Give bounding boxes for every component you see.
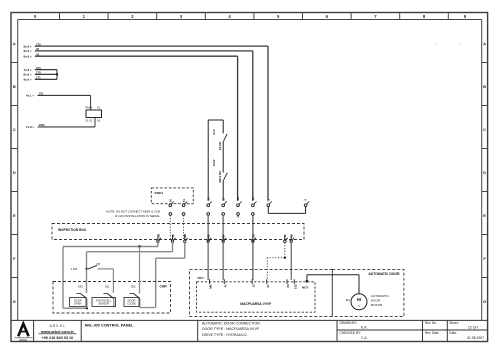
svg-text:AUTOMATIC DOOR: AUTOMATIC DOOR [368, 272, 400, 276]
svg-text:8x.9 >: 8x.9 > [24, 49, 32, 53]
svg-text:532: 532 [131, 285, 136, 289]
svg-text:MOTOR: MOTOR [371, 303, 383, 307]
svg-text:51: 51 [182, 199, 186, 203]
svg-text:NOTE: DO NOT CONNECT KBK4 & CC: NOTE: DO NOT CONNECT KBK4 & CCB [106, 210, 160, 214]
svg-text:SENSOR: SENSOR [98, 301, 109, 305]
svg-text:D: D [13, 170, 16, 175]
svg-text:31.02: 31.02 [86, 119, 93, 123]
svg-text:A1: A1 [97, 106, 101, 110]
svg-text:INSPECTION BOX: INSPECTION BOX [58, 228, 87, 232]
svg-text:8x.9 >: 8x.9 > [24, 73, 32, 77]
svg-text:DOOR TYPE : MACPUARSA VVVF: DOOR TYPE : MACPUARSA VVVF [202, 327, 260, 331]
svg-text:C: C [13, 127, 16, 132]
svg-text:ARL-300 CONTROL PANEL: ARL-300 CONTROL PANEL [85, 323, 134, 327]
svg-text:31.08.2007: 31.08.2007 [467, 336, 484, 340]
svg-text:DRAWN BY:: DRAWN BY: [340, 321, 358, 325]
svg-text:4x.1 >: 4x.1 > [26, 94, 34, 98]
svg-text:M1: M1 [346, 298, 350, 302]
svg-text:E: E [13, 213, 16, 218]
svg-text:+90 216 540 03 10: +90 216 540 03 10 [42, 336, 74, 340]
svg-text:MK: MK [209, 284, 213, 288]
svg-text:Sheet:: Sheet: [449, 321, 458, 325]
svg-text:OPEN: OPEN [74, 301, 81, 305]
svg-text:58: 58 [236, 197, 240, 201]
svg-text:7x.9 >: 7x.9 > [24, 68, 32, 72]
svg-text:B: B [483, 84, 486, 89]
svg-text:G: G [483, 299, 486, 304]
svg-text:NP: NP [97, 262, 101, 266]
svg-text:100V: 100V [212, 159, 216, 166]
svg-text:Date:: Date: [449, 331, 457, 335]
svg-text:8x.9 >: 8x.9 > [24, 44, 32, 48]
svg-text:A R K E L: A R K E L [50, 324, 66, 328]
svg-text:B: B [13, 84, 16, 89]
svg-text:ARKEL: ARKEL [19, 338, 28, 342]
svg-text:56: 56 [206, 197, 210, 201]
svg-text:A2: A2 [97, 119, 101, 123]
svg-text:AUTOMATIC DOOR CONNECTION: AUTOMATIC DOOR CONNECTION [202, 322, 260, 326]
svg-text:K.A.: K.A. [361, 326, 367, 330]
svg-text:www.arkel.com.tr: www.arkel.com.tr [40, 329, 74, 334]
svg-text:50: 50 [169, 199, 173, 203]
svg-text:MOT: MOT [302, 285, 309, 289]
svg-text:MACPUARSA VVVF: MACPUARSA VVVF [240, 302, 271, 306]
svg-text:RM-2: RM-2 [86, 106, 93, 110]
svg-text:41: 41 [224, 284, 228, 288]
svg-text:CAR: CAR [160, 285, 168, 289]
svg-text:D: D [483, 170, 486, 175]
svg-text:K2 NO: K2 NO [218, 141, 222, 150]
svg-text:E: E [483, 213, 486, 218]
svg-text:57: 57 [221, 197, 225, 201]
svg-text:IF CAN INSTALLATION IS SERIAL: IF CAN INSTALLATION IS SERIAL [115, 214, 160, 218]
svg-text:CLOSE: CLOSE [127, 301, 136, 305]
svg-text:A: A [483, 41, 486, 46]
svg-text:8x.9 >: 8x.9 > [24, 78, 32, 82]
svg-text:3S: 3S [286, 284, 290, 288]
svg-text:DOOR: DOOR [371, 299, 381, 303]
svg-text:4C: 4C [266, 284, 270, 288]
svg-text:7x.9 >: 7x.9 > [26, 125, 34, 129]
svg-text:102: 102 [294, 284, 298, 289]
svg-text:~: ~ [358, 304, 361, 310]
svg-text:12: 12 [251, 284, 255, 288]
svg-text:531: 531 [105, 285, 110, 289]
svg-text:A: A [13, 41, 16, 46]
svg-text:CHECKED BY:: CHECKED BY: [340, 331, 362, 335]
svg-text:Rev. Date: Rev. Date [425, 331, 439, 335]
svg-text:1 FM: 1 FM [71, 267, 78, 271]
svg-text:C.A.: C.A. [361, 336, 368, 340]
svg-text:G: G [13, 299, 16, 304]
svg-text:Rev. No: Rev. No [425, 321, 437, 325]
svg-text:C: C [483, 127, 486, 132]
svg-text:DKY: DKY [198, 276, 204, 280]
svg-text:KBK4: KBK4 [155, 191, 164, 195]
svg-text:AUTOMATIC: AUTOMATIC [371, 294, 390, 298]
svg-text:8x.9 >: 8x.9 > [24, 54, 32, 58]
svg-text:DRIVE TYPE : HYDRAULIC: DRIVE TYPE : HYDRAULIC [202, 333, 247, 337]
svg-text:RM-2 NO: RM-2 NO [218, 170, 222, 183]
svg-text:530: 530 [78, 285, 83, 289]
svg-text:12 CH: 12 CH [468, 326, 479, 330]
svg-text:59: 59 [251, 197, 255, 201]
svg-text:4x.8: 4x.8 [212, 129, 216, 135]
svg-text:M: M [357, 297, 361, 302]
